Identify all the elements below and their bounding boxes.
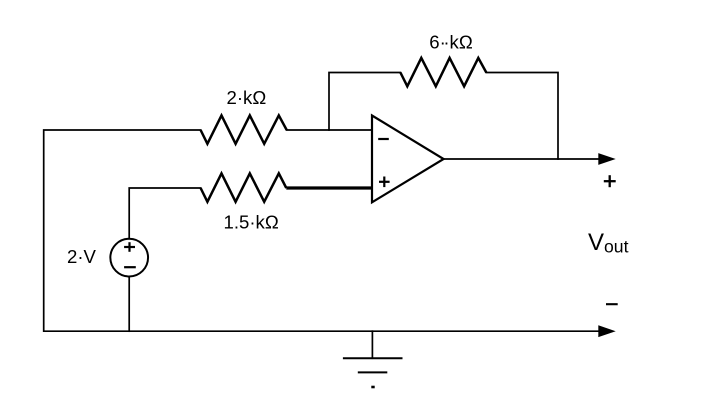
svg-text:2·V: 2·V: [67, 246, 97, 267]
svg-text:2·kΩ: 2·kΩ: [227, 87, 267, 108]
svg-text:6··kΩ: 6··kΩ: [429, 31, 473, 52]
svg-text:1.5·kΩ: 1.5·kΩ: [224, 211, 279, 232]
